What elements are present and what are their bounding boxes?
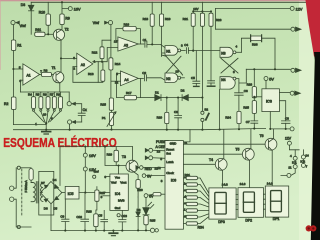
resistor R30 — [135, 172, 143, 197]
svg-text:A4: A4 — [124, 78, 128, 82]
resistor R14 — [109, 58, 121, 98]
svg-text:D7: D7 — [41, 181, 45, 185]
terminal out mid — [291, 68, 301, 72]
pin circle 4 — [290, 154, 297, 160]
svg-text:R31: R31 — [185, 173, 191, 177]
svg-text:R23: R23 — [216, 18, 222, 22]
terminal 12V right — [285, 136, 299, 149]
svg-text:IC1: IC1 — [292, 160, 297, 164]
resistor R1 — [11, 40, 21, 51]
svg-text:T2: T2 — [65, 28, 69, 32]
resistor R9 — [60, 14, 70, 29]
svg-text:Vout: Vout — [120, 181, 126, 185]
terminal 5V b — [144, 193, 165, 199]
svg-text:N2: N2 — [166, 77, 170, 81]
capacitor C5 — [191, 51, 200, 87]
pin circle 7 — [300, 159, 307, 168]
resistor R16 — [123, 22, 140, 44]
svg-text:MVB: MVB — [118, 198, 125, 202]
resistor Rg segment — [183, 214, 209, 219]
svg-text:R11: R11 — [35, 28, 41, 32]
wire A1 fb — [20, 80, 23, 92]
svg-text:Set: Set — [166, 151, 171, 155]
wire Cx bottom to rail — [69, 124, 71, 130]
op-amp A2 — [73, 53, 95, 74]
svg-text:12: 12 — [157, 166, 161, 170]
terminal Cx top — [67, 92, 82, 113]
capacitor C2 — [138, 71, 165, 81]
svg-text:IC3: IC3 — [266, 100, 272, 104]
svg-text:16V: 16V — [89, 154, 96, 158]
svg-text:DP1: DP1 — [273, 217, 280, 221]
resistor Ra segment — [183, 173, 209, 193]
wire T5 collector up — [250, 129, 252, 149]
wire bridge output — [51, 193, 65, 231]
ground below switch — [42, 132, 51, 134]
wire T5 base — [183, 153, 242, 155]
wire N1-N2 cross coupling — [162, 55, 183, 75]
svg-text:A1: A1 — [27, 74, 31, 78]
terminal 5V a — [142, 174, 165, 179]
svg-text:R14: R14 — [115, 62, 121, 66]
wire 12V bottom node — [269, 112, 290, 130]
svg-text:R16: R16 — [124, 22, 130, 26]
op-amp A4 — [115, 71, 138, 86]
top supply rail wire — [31, 1, 306, 3]
svg-text:R5: R5 — [36, 92, 40, 96]
wire N3 out to R36 — [241, 38, 250, 52]
svg-text:R25: R25 — [243, 106, 249, 110]
svg-text:R12: R12 — [92, 50, 98, 54]
svg-text:R15: R15 — [100, 103, 106, 107]
resistor R36 — [251, 35, 262, 46]
resistor R4 — [28, 92, 36, 111]
svg-text:R20: R20 — [157, 115, 163, 119]
capacitor C5b — [98, 210, 107, 230]
svg-text:12V: 12V — [193, 7, 198, 11]
transformer primary winding — [31, 183, 35, 202]
resistor R11 — [35, 28, 54, 36]
resistor R10 — [39, 2, 51, 34]
svg-text:A2: A2 — [81, 63, 85, 67]
wire IC3 output pin — [279, 92, 290, 94]
resistor R23 — [209, 11, 222, 80]
transformer box — [39, 171, 54, 215]
wire T5 emitter to display — [249, 161, 251, 188]
wire N3-N6 cross coupling — [221, 58, 238, 73]
svg-text:Latch: Latch — [166, 160, 174, 164]
svg-text:S2: S2 — [204, 108, 208, 112]
rotary switch S1 wipers — [34, 112, 60, 126]
svg-text:C8: C8 — [285, 117, 289, 121]
IC6 pin 11 top — [183, 130, 190, 145]
resistor R8 — [56, 92, 62, 111]
resistor R3 — [40, 68, 54, 76]
resistor R27 — [95, 187, 106, 214]
diode D1 — [141, 91, 167, 101]
svg-text:C5: C5 — [98, 214, 102, 218]
capacitor Cx — [78, 108, 87, 122]
svg-text:T6: T6 — [260, 134, 264, 138]
wire R2 to switch hub — [13, 110, 46, 125]
wire R36 right leg — [262, 38, 275, 69]
wire arrow rail top — [216, 28, 291, 30]
node 12V rail R21-R23 — [192, 2, 212, 12]
svg-text:R28: R28 — [86, 210, 92, 214]
resistor R7 — [50, 92, 57, 111]
svg-text:C3: C3 — [174, 110, 178, 114]
svg-text:F 500mA: F 500mA — [24, 180, 28, 192]
svg-text:C6: C6 — [244, 89, 248, 93]
svg-text:C9: C9 — [60, 215, 64, 219]
IC U5 regulator — [65, 186, 79, 199]
capacitor C5x — [207, 81, 214, 86]
resistor R18 — [143, 2, 155, 44]
svg-text:R8: R8 — [56, 92, 60, 96]
svg-text:R18: R18 — [143, 17, 149, 21]
label PUESTA A CERO — [156, 140, 171, 149]
bridge rectifier diamond — [40, 182, 62, 204]
svg-text:IC6: IC6 — [171, 179, 176, 183]
svg-text:A3: A3 — [124, 44, 128, 48]
svg-text:D5: D5 — [53, 206, 57, 210]
capacitor C8 — [279, 101, 290, 129]
display DP2 — [238, 182, 264, 222]
svg-text:DP3: DP3 — [218, 220, 225, 224]
svg-text:R7: R7 — [50, 92, 54, 96]
terminal Vref — [11, 21, 26, 28]
wire main ground rail — [13, 128, 265, 131]
svg-text:5V: 5V — [269, 77, 274, 81]
wire IC4 top feed — [104, 166, 118, 179]
potentiometer P1 — [102, 112, 116, 131]
svg-text:N4: N4 — [221, 78, 225, 82]
transistor T2 — [53, 28, 68, 41]
terminal Vref 2 — [93, 21, 113, 26]
IC6 pin numbers left — [157, 149, 163, 183]
wire T4 collector up — [223, 130, 225, 159]
svg-text:IC5: IC5 — [68, 192, 74, 196]
terminal Cx bottom — [68, 120, 82, 124]
wire display links b — [264, 194, 266, 209]
transistor T3 — [122, 147, 138, 173]
red border block top right — [306, 0, 320, 57]
capacitor C10 — [76, 193, 88, 231]
svg-text:IC2: IC2 — [300, 159, 305, 163]
svg-text:D8: D8 — [137, 208, 141, 212]
resistor R5 — [36, 92, 43, 111]
terminal puesta 2 — [145, 156, 165, 160]
svg-text:C7: C7 — [246, 120, 250, 124]
wire R1 to A1 input — [12, 51, 23, 98]
svg-text:R34: R34 — [198, 226, 204, 230]
svg-text:12V: 12V — [285, 136, 292, 140]
svg-text:R19: R19 — [165, 17, 171, 21]
capacitor C9 — [60, 199, 69, 231]
wire T6 collector up — [273, 129, 275, 139]
svg-text:GND: GND — [170, 142, 178, 146]
wire T1 emitter down — [59, 83, 61, 92]
wire Vref down — [12, 25, 14, 40]
resistor R13 — [88, 62, 105, 83]
svg-text:C2: C2 — [142, 71, 146, 75]
switch contact circle — [17, 166, 31, 169]
svg-text:R9: R9 — [65, 17, 69, 21]
NAND gate N6 — [220, 70, 239, 93]
svg-text:Gnd: Gnd — [115, 206, 121, 210]
terminal output jack — [150, 228, 158, 232]
diode D2 — [167, 88, 204, 100]
transformer secondary winding — [41, 183, 43, 201]
svg-text:Vref: Vref — [20, 24, 26, 28]
IC U4 — [110, 174, 128, 210]
resistor R35 — [144, 216, 156, 231]
svg-text:Clock: Clock — [166, 171, 174, 175]
wire Vref rail down — [110, 25, 112, 58]
svg-text:10: 10 — [43, 113, 47, 117]
diode D8 — [136, 197, 141, 230]
svg-text:R36: R36 — [252, 42, 258, 46]
node switch hub — [45, 122, 47, 129]
wire T2 emitter to A2 — [60, 40, 77, 72]
wire T4 base — [183, 163, 215, 165]
svg-text:R29: R29 — [107, 152, 113, 156]
wire A4 plus input — [111, 80, 121, 82]
svg-text:C5: C5 — [191, 76, 195, 80]
svg-text:R6: R6 — [43, 92, 47, 96]
svg-text:14.3: 14.3 — [240, 182, 246, 186]
terminal RED — [136, 166, 165, 171]
switch dashed link — [21, 169, 23, 216]
wire IC4 pin 5 — [101, 195, 110, 199]
resistor R25 — [243, 101, 256, 121]
IC U3 — [262, 89, 280, 112]
terminal 16V — [68, 7, 81, 12]
resistor R20 — [157, 97, 169, 130]
svg-text:R13: R13 — [88, 72, 94, 76]
svg-text:Vcc: Vcc — [115, 176, 121, 180]
svg-text:R24: R24 — [225, 116, 231, 120]
IC U6 counter — [165, 141, 183, 230]
svg-text:DP2: DP2 — [245, 218, 252, 222]
resistor R2 — [4, 97, 16, 110]
display DP3 — [209, 182, 236, 224]
wire A2 output — [93, 48, 118, 62]
svg-text:Vref: Vref — [93, 170, 99, 174]
wire A3 fb loop — [116, 29, 123, 41]
svg-text:14: 14 — [305, 153, 309, 157]
switch contact circle 2 — [17, 225, 20, 228]
svg-text:14.3: 14.3 — [222, 182, 228, 186]
NAND gate N1 — [162, 43, 183, 55]
wire A2 feedback loop — [73, 62, 98, 83]
terminal mains pin 2 — [10, 197, 32, 227]
NAND gate N3 — [220, 44, 241, 57]
svg-text:Vref: Vref — [111, 181, 117, 185]
left pink border line — [0, 0, 1, 70]
wire T3 base feed — [105, 147, 129, 167]
svg-text:16V: 16V — [74, 7, 81, 11]
light paper edge column — [299, 0, 314, 240]
ground bottom center — [109, 231, 117, 236]
NAND gate N2 — [165, 69, 184, 82]
resistor R12 — [92, 40, 111, 63]
switch S2 — [201, 98, 209, 130]
terminal mains pin 1 — [10, 168, 17, 191]
resistor Rd segment — [183, 196, 209, 204]
op-amp A1 — [19, 64, 42, 85]
svg-text:R35: R35 — [150, 218, 156, 222]
svg-text:D1: D1 — [155, 91, 159, 95]
transistor T5 — [235, 147, 254, 160]
svg-text:Cx: Cx — [83, 108, 87, 112]
svg-text:R4: R4 — [28, 92, 32, 96]
svg-text:10: 10 — [175, 69, 179, 73]
terminal 16V mid — [83, 147, 96, 159]
resistor Rf segment — [183, 209, 209, 212]
terminal 5V — [264, 77, 274, 89]
svg-text:D3: D3 — [21, 3, 25, 7]
svg-text:R3: R3 — [44, 68, 48, 72]
terminal Vref small — [93, 170, 99, 179]
capacitor C3 — [174, 98, 182, 130]
resistor R34 segment — [183, 217, 209, 230]
resistor Re segment — [183, 202, 209, 207]
svg-text:R26: R26 — [247, 82, 253, 86]
node IC supply pins — [281, 150, 304, 176]
svg-text:C4: C4 — [184, 43, 188, 47]
terminal 12V mid — [290, 127, 294, 131]
terminal out IC3 — [290, 91, 300, 95]
svg-text:R2: R2 — [4, 102, 8, 106]
resistor R28 — [86, 210, 98, 231]
capacitor C4 — [181, 43, 220, 53]
svg-text:R21: R21 — [183, 17, 189, 21]
wire A4 fb loop — [117, 74, 125, 98]
resistor Rb segment — [183, 183, 209, 197]
pin circle 14 — [301, 153, 309, 159]
svg-text:D6: D6 — [44, 206, 48, 210]
resistor R6 — [43, 92, 50, 111]
pin circle 0 — [287, 173, 291, 177]
terminal out top — [291, 27, 301, 31]
wire 5V rail — [239, 68, 290, 83]
svg-text:T4: T4 — [209, 158, 213, 162]
transistor T6 — [260, 134, 277, 150]
IC6 pin letters right — [184, 175, 186, 218]
svg-text:P1: P1 — [102, 116, 106, 120]
resistor R17 — [124, 78, 140, 99]
wire 12V top rail — [216, 8, 291, 29]
wire T6 base — [183, 143, 265, 145]
fuse F 500mA — [24, 169, 33, 193]
wire display links a — [236, 194, 238, 209]
wire 16V bus — [60, 146, 133, 186]
svg-text:R17: R17 — [126, 91, 132, 95]
LED D9 — [143, 198, 154, 215]
terminal puesta 1 — [145, 148, 165, 152]
resistor R26 — [247, 69, 262, 100]
terminal 12V mid-left — [83, 157, 96, 192]
svg-text:R1: R1 — [17, 44, 21, 48]
op-amp A3 — [114, 37, 138, 51]
svg-text:Vref: Vref — [93, 21, 99, 25]
svg-text:11: 11 — [288, 165, 291, 169]
svg-text:12V: 12V — [296, 7, 303, 11]
svg-text:D4: D4 — [53, 178, 57, 182]
node 16V junction — [61, 1, 68, 14]
red infinity mark — [306, 225, 317, 231]
transformer core — [36, 182, 38, 204]
resistor R15 — [100, 98, 113, 112]
wire T4 emitter to display — [221, 171, 223, 188]
svg-text:T3: T3 — [122, 155, 126, 159]
display DP1 — [265, 182, 288, 222]
capacitor C1 — [138, 38, 165, 48]
svg-text:C10: C10 — [76, 215, 82, 219]
capacitor C6 — [235, 89, 248, 112]
svg-text:D2: D2 — [181, 88, 185, 92]
resistor R29 — [107, 147, 119, 166]
transistor T4 — [209, 158, 227, 171]
svg-text:R10: R10 — [39, 10, 45, 14]
resistor R19 — [160, 2, 171, 56]
top pink border line — [0, 0, 320, 1]
transistor T1 — [52, 66, 64, 83]
svg-text:IC4: IC4 — [115, 192, 120, 196]
resistor R22 — [200, 11, 204, 97]
terminal 12V top — [290, 6, 303, 11]
wire N6 column to rail — [219, 89, 221, 129]
resistor R24 — [225, 111, 241, 129]
pin circle 11 — [288, 160, 297, 169]
black border strip right — [311, 52, 320, 240]
svg-text:13: 13 — [157, 149, 161, 153]
wire IC5 output 16V — [79, 192, 110, 194]
diode D3 — [21, 2, 34, 34]
wire T6 emitter to display — [271, 151, 273, 187]
capacitor C11 — [117, 210, 127, 230]
svg-text:T5: T5 — [235, 147, 239, 151]
svg-text:N1: N1 — [166, 50, 170, 54]
wire bottom supply rail — [51, 229, 150, 231]
resistor Rc segment — [183, 189, 209, 200]
svg-text:T1: T1 — [52, 66, 56, 70]
resistor R21 — [183, 11, 196, 50]
svg-text:N3: N3 — [221, 52, 225, 56]
wire resistor bank rail — [20, 91, 69, 93]
capacitor C7 — [246, 120, 258, 129]
svg-text:14.3: 14.3 — [267, 182, 273, 186]
